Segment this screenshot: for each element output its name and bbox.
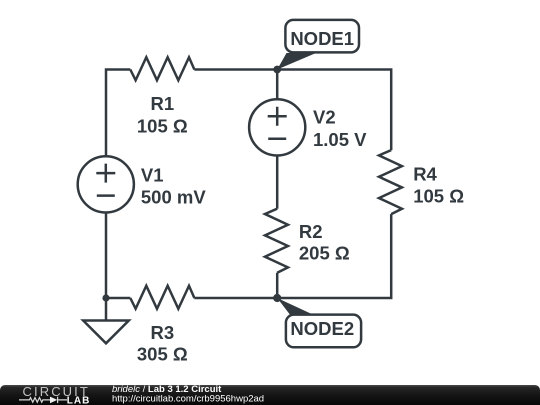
V2 minus sign: [268, 137, 286, 140]
logo wire-resistor-diode graphic: [19, 397, 67, 403]
V1 minus sign: [97, 194, 115, 197]
svg-text:1.05 V: 1.05 V: [313, 129, 367, 150]
wire R2 to bottom: [276, 273, 279, 298]
svg-text:105 Ω: 105 Ω: [413, 186, 464, 207]
svg-text:LAB: LAB: [67, 396, 91, 405]
svg-text:NODE2: NODE2: [290, 318, 354, 339]
wire top-left corner segment: [106, 70, 130, 157]
NODE2 flag box: [286, 315, 361, 348]
logo diode triangle: [50, 397, 57, 404]
wire V2 to R2: [276, 156, 279, 209]
svg-text:205 Ω: 205 Ω: [299, 243, 350, 264]
node junction dot NODE1: [273, 66, 281, 74]
svg-text:http://circuitlab.com/crb9956h: http://circuitlab.com/crb9956hwp2ad: [112, 394, 264, 405]
wire right rail lower and bottom-right corner: [194, 214, 391, 298]
svg-text:105 Ω: 105 Ω: [137, 115, 188, 136]
ground symbol triangle: [83, 321, 129, 344]
NODE2 flag pointer wedge: [277, 298, 316, 316]
svg-text:V2: V2: [313, 107, 336, 128]
voltage source V1 circle: [78, 156, 134, 212]
NODE1 flag pointer wedge: [277, 53, 316, 70]
svg-text:R3: R3: [150, 322, 174, 343]
footer black bar: [0, 385, 540, 405]
wire top horizontal and right rail upper: [194, 70, 391, 151]
svg-text:R1: R1: [150, 93, 174, 114]
node junction dot ground: [102, 294, 109, 301]
ground stub wire: [105, 298, 108, 321]
V2 plus sign: [268, 107, 287, 126]
svg-text:V1: V1: [141, 164, 164, 185]
svg-text:500 mV: 500 mV: [141, 187, 206, 208]
resistor R3 (zigzag): [130, 286, 194, 309]
resistor R4 (zigzag): [379, 150, 402, 214]
svg-text:NODE1: NODE1: [290, 28, 354, 49]
wire V2 top stub: [276, 70, 279, 101]
svg-text:R4: R4: [413, 163, 437, 184]
V1 plus sign: [96, 164, 115, 183]
resistor R1 (zigzag): [130, 57, 194, 80]
NODE1 flag box: [285, 20, 359, 53]
wire bottom-left corner segment: [106, 213, 130, 299]
svg-text:305 Ω: 305 Ω: [137, 344, 188, 365]
svg-text:R2: R2: [299, 221, 323, 242]
node junction dot NODE2: [273, 294, 281, 302]
resistor R2 (zigzag): [265, 209, 288, 273]
voltage source V2 circle: [249, 99, 305, 155]
